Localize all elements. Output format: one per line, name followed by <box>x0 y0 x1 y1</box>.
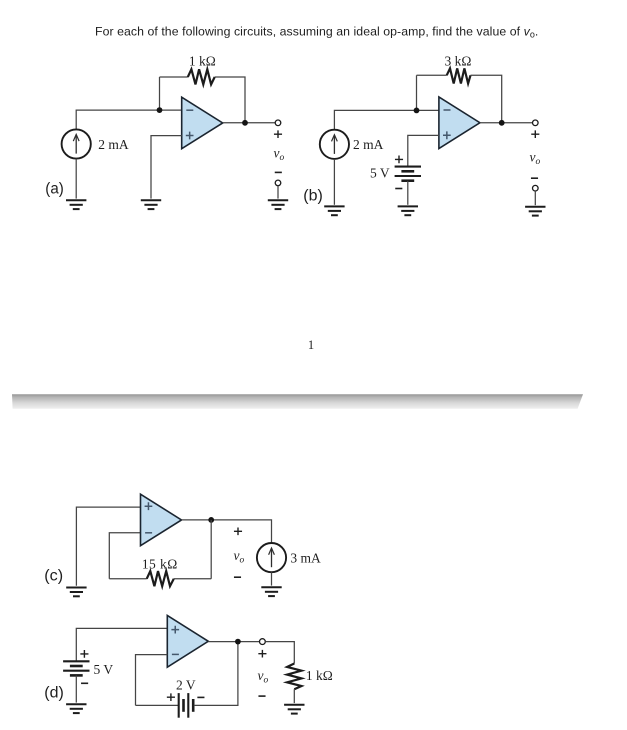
wire: non-inverting input to left and down (c) <box>76 507 140 586</box>
svg-text:vo: vo <box>258 668 269 686</box>
wire: battery right to output node vertical (d) <box>194 642 238 706</box>
svg-text:1 kΩ: 1 kΩ <box>306 668 333 683</box>
label + output (a) <box>274 130 282 138</box>
svg-text:(b): (b) <box>303 187 323 204</box>
current source I 2 mA <box>62 129 91 158</box>
current source I 3 mA (c) <box>257 543 286 572</box>
svg-text:For each of the following circ: For each of the following circuits, assu… <box>95 24 538 39</box>
svg-text:(c): (c) <box>44 567 63 584</box>
svg-text:15 kΩ: 15 kΩ <box>142 556 178 571</box>
svg-text:(a): (a) <box>45 181 64 198</box>
terminal: output + (b) <box>533 120 539 126</box>
op-amp U-c <box>141 494 182 546</box>
svg-text:2 mA: 2 mA <box>353 137 384 152</box>
wire: feedback left vertical <box>159 77 161 110</box>
label minus battery2 (d) <box>197 696 204 698</box>
ground: output reference (a) <box>268 200 288 209</box>
wire: battery bottom to ground <box>407 181 409 205</box>
wire: resistor left lead <box>160 76 188 78</box>
svg-text:(d): (d) <box>44 684 64 701</box>
wire: inverting input left and down (d) <box>136 655 168 706</box>
node: inverting junction (b) <box>414 108 420 114</box>
terminal: open circle inline (d) <box>260 639 266 645</box>
battery 5 V <box>395 167 421 181</box>
svg-text:vo: vo <box>274 145 285 163</box>
wire: inverting input left and down (c) <box>109 533 140 579</box>
resistor R 15 kOhm <box>147 571 174 586</box>
wire: non-inverting input down to battery <box>408 135 439 166</box>
wire: output to source top (c) <box>182 520 272 543</box>
wire: resistor right lead (c) <box>174 578 211 580</box>
wire: source bottom to ground (b) <box>333 159 335 205</box>
wire: feedback left vertical (b) <box>416 75 418 110</box>
label + output (b) <box>531 130 539 138</box>
wire: resistor bottom to ground (d) <box>293 689 295 703</box>
ground: non-inverting reference (c) <box>66 588 86 597</box>
wire: node down to resistor (c) <box>210 520 212 579</box>
wire: op-amp output to open terminal (d) <box>208 641 259 643</box>
svg-text:1 kΩ: 1 kΩ <box>189 54 216 69</box>
wire: source bottom to ground <box>75 159 77 199</box>
svg-text:3 mA: 3 mA <box>290 551 321 566</box>
label + battery (b) <box>395 156 403 164</box>
wire: bottom left to 2 V battery (d) <box>136 704 179 706</box>
battery 5 V (d) <box>63 661 89 675</box>
label minus output (b) <box>531 177 538 179</box>
ground: under resistor (d) <box>284 705 304 714</box>
svg-text:2 mA: 2 mA <box>98 137 129 152</box>
wire: non-inverting input left and down to battery (d) <box>76 628 167 661</box>
svg-text:2 V: 2 V <box>176 677 196 692</box>
wire: lower terminal to ground (b) <box>534 191 536 205</box>
resistor R 3 kOhm <box>447 68 471 83</box>
node: output (b) <box>499 120 505 126</box>
label minus output (d) <box>258 695 265 697</box>
svg-text:1: 1 <box>308 338 314 352</box>
wire: op-amp output to terminal <box>223 122 276 124</box>
op-amp U-b <box>439 97 480 149</box>
wire: resistor right lead down to output node <box>215 77 245 123</box>
wire: resistor left lead (b) <box>417 74 447 76</box>
current source I 2 mA (b) <box>320 130 349 159</box>
label minus output (c) <box>234 576 241 578</box>
label minus battery (d) <box>81 682 88 684</box>
wire: source top up and right to inverting node <box>76 110 159 129</box>
label minus battery (b) <box>395 188 402 190</box>
resistor R 1 kOhm <box>188 69 215 84</box>
ground: under current source (c) <box>261 587 281 596</box>
ground: non-inverting input <box>141 200 161 209</box>
battery 2 V (d) <box>179 693 194 718</box>
terminal: output + <box>275 120 281 126</box>
page divider bar <box>12 394 583 409</box>
svg-text:5 V: 5 V <box>370 165 390 180</box>
ground: under battery (b) <box>398 206 418 215</box>
ground: under 5 V battery (d) <box>66 704 86 713</box>
wire: source bottom to ground (c) <box>271 572 273 585</box>
node: output junction (d) <box>235 639 241 645</box>
wire: op-amp output to terminal (b) <box>480 122 533 124</box>
terminal: output minus <box>275 180 281 186</box>
label + battery (d) <box>80 650 88 658</box>
svg-text:vo: vo <box>234 548 245 566</box>
ground: under current source (b) <box>324 206 344 215</box>
ground: under current source <box>66 200 86 209</box>
op-amp U-d <box>167 615 208 667</box>
node: output <box>242 120 248 126</box>
label + output (d) <box>258 650 266 658</box>
ground: output reference (b) <box>525 207 545 216</box>
svg-text:5 V: 5 V <box>94 662 114 677</box>
wire: resistor left lead (c) <box>109 578 146 580</box>
wire: lower terminal to ground <box>277 186 279 199</box>
label + battery2 (d) <box>167 693 175 701</box>
wire: node to op-amp inverting input <box>160 109 182 111</box>
label minus output (a) <box>275 171 282 173</box>
wire: resistor right lead down to output (b) <box>471 75 502 123</box>
wire: battery bottom to ground (d) <box>75 676 77 703</box>
resistor R 1 kOhm (d) <box>287 664 301 690</box>
wire: source top up and right to inverting input <box>334 110 439 129</box>
node: output junction (c) <box>208 517 214 523</box>
terminal: output minus (b) <box>533 185 539 191</box>
svg-text:3 kΩ: 3 kΩ <box>445 54 472 69</box>
node: inverting input junction <box>157 107 163 113</box>
svg-text:vo: vo <box>530 150 541 168</box>
wire: non-inverting input to ground <box>151 136 182 199</box>
label + output (c) <box>234 527 242 535</box>
op-amp U-a <box>182 97 223 149</box>
wire: terminal to resistor top (d) <box>265 642 294 664</box>
